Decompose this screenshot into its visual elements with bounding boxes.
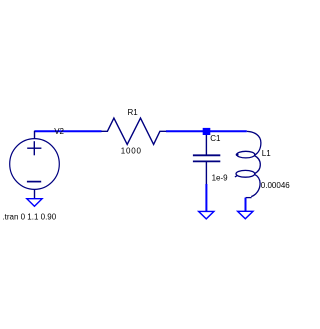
wire (166, 130, 207, 132)
svg-text:C1: C1 (210, 134, 221, 143)
wire (207, 130, 247, 132)
svg-text:0.00046: 0.00046 (261, 181, 290, 190)
svg-text:1e-9: 1e-9 (212, 174, 229, 183)
svg-text:V2: V2 (54, 127, 64, 136)
wire (205, 184, 207, 211)
wire (245, 198, 247, 212)
ground (27, 199, 42, 207)
capacitor C1 (193, 135, 220, 184)
svg-text:L1: L1 (262, 149, 271, 158)
svg-text:R1: R1 (128, 108, 139, 117)
ground (199, 211, 214, 219)
inductor L1 (235, 131, 261, 197)
svg-text:1000: 1000 (121, 147, 142, 156)
wire (34, 130, 101, 132)
node junction (203, 128, 211, 135)
voltage source V2 (10, 131, 60, 199)
ground (238, 211, 253, 219)
svg-text:.tran 0 1.1 0.90: .tran 0 1.1 0.90 (2, 212, 56, 221)
resistor R1 (101, 118, 166, 144)
